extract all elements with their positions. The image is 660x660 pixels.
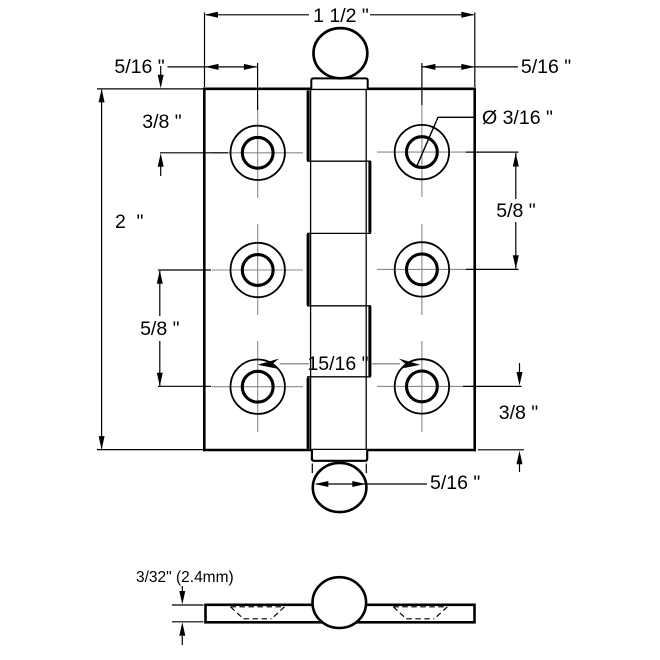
svg-text:Ø 3/16 ": Ø 3/16 " (482, 107, 553, 129)
bottom view countersink right (hidden lines) (393, 607, 447, 619)
knuckle joint line 2 (307, 232, 371, 234)
dimension 1 1/2 inch overall width (205, 13, 475, 88)
hinge bottom edge (203, 449, 476, 452)
centerline crosshair hole mid-left (212, 224, 303, 315)
svg-text:15/16 ": 15/16 " (307, 353, 368, 375)
centerline crosshair hole mid-right (377, 224, 468, 315)
left leaf plate outline (203, 88, 206, 452)
knuckle 3 outer line (307, 234, 310, 305)
bottom neck stub left (311, 464, 313, 474)
centerline crosshair hole top-right (377, 105, 468, 197)
right leaf plate outline (473, 88, 476, 452)
hole top-right (395, 125, 449, 179)
svg-text:5/16 ": 5/16 " (430, 472, 480, 494)
hole bottom-right (395, 359, 449, 413)
centerline crosshair hole bottom-right (377, 341, 468, 432)
dimension 5/8 inch hole spacing (left) (158, 270, 211, 386)
hole top-left (231, 126, 285, 180)
knuckle joint line 4 (307, 376, 371, 378)
leader diameter 3/16 hole callout (416, 117, 475, 167)
bottom view countersink left (hidden lines) (231, 607, 285, 619)
bottom view barrel circle (313, 577, 367, 628)
barrel inner edge right (thin) (365, 90, 367, 449)
bottom view leaf bar (206, 605, 475, 623)
hole mid-left (231, 243, 285, 297)
knuckle 2 outer line (368, 162, 371, 233)
svg-text:5/16 ": 5/16 " (521, 56, 571, 78)
knuckle 1 outer line (307, 91, 310, 161)
svg-text:1 1/2 ": 1 1/2 " (313, 5, 369, 27)
centerline crosshair hole bottom-left (212, 341, 303, 432)
bottom neck stub right (365, 464, 367, 474)
svg-text:5/8 ": 5/8 " (140, 318, 180, 340)
bottom ball finial (313, 463, 367, 512)
dimension 5/16 inch ball diameter (316, 483, 427, 485)
knuckle joint line 1 (307, 160, 371, 162)
svg-text:3/8 ": 3/8 " (142, 111, 182, 133)
barrel inner edge left (thin) (310, 90, 312, 449)
dimension 5/16 inch left edge margin (168, 63, 258, 110)
centerline crosshair hole top-left (212, 105, 303, 198)
dimension 2 inch overall height (97, 89, 203, 450)
svg-text:3/8 ": 3/8 " (499, 402, 539, 424)
knuckle 4 outer line (368, 306, 371, 376)
svg-text:2: 2 (115, 211, 126, 233)
knuckle joint line 3 (307, 305, 371, 307)
dimension 15/16 inch hole span (280, 363, 309, 365)
svg-text:5/8 ": 5/8 " (496, 200, 536, 222)
top ball finial (314, 28, 368, 78)
svg-text:3/32" (2.4mm): 3/32" (2.4mm) (136, 569, 234, 586)
bottom finial cap (312, 450, 367, 461)
dimension 3/32 inch leaf thickness (172, 586, 204, 645)
hinge top edge (203, 88, 476, 91)
top finial cap (311, 78, 367, 88)
dimension 3/8 inch top hole offset (left) (160, 66, 228, 176)
hole mid-right (395, 242, 449, 296)
dimension 5/16 inch right edge margin (422, 63, 518, 105)
svg-text:5/16 ": 5/16 " (114, 56, 164, 78)
svg-text:": " (137, 211, 144, 233)
knuckle 5 outer line (307, 378, 310, 449)
dimension 3/8 inch bottom hole offset (right) (463, 363, 524, 472)
hole bottom-left (231, 360, 285, 414)
dimension 5/8 inch hole spacing (right) (466, 152, 519, 269)
